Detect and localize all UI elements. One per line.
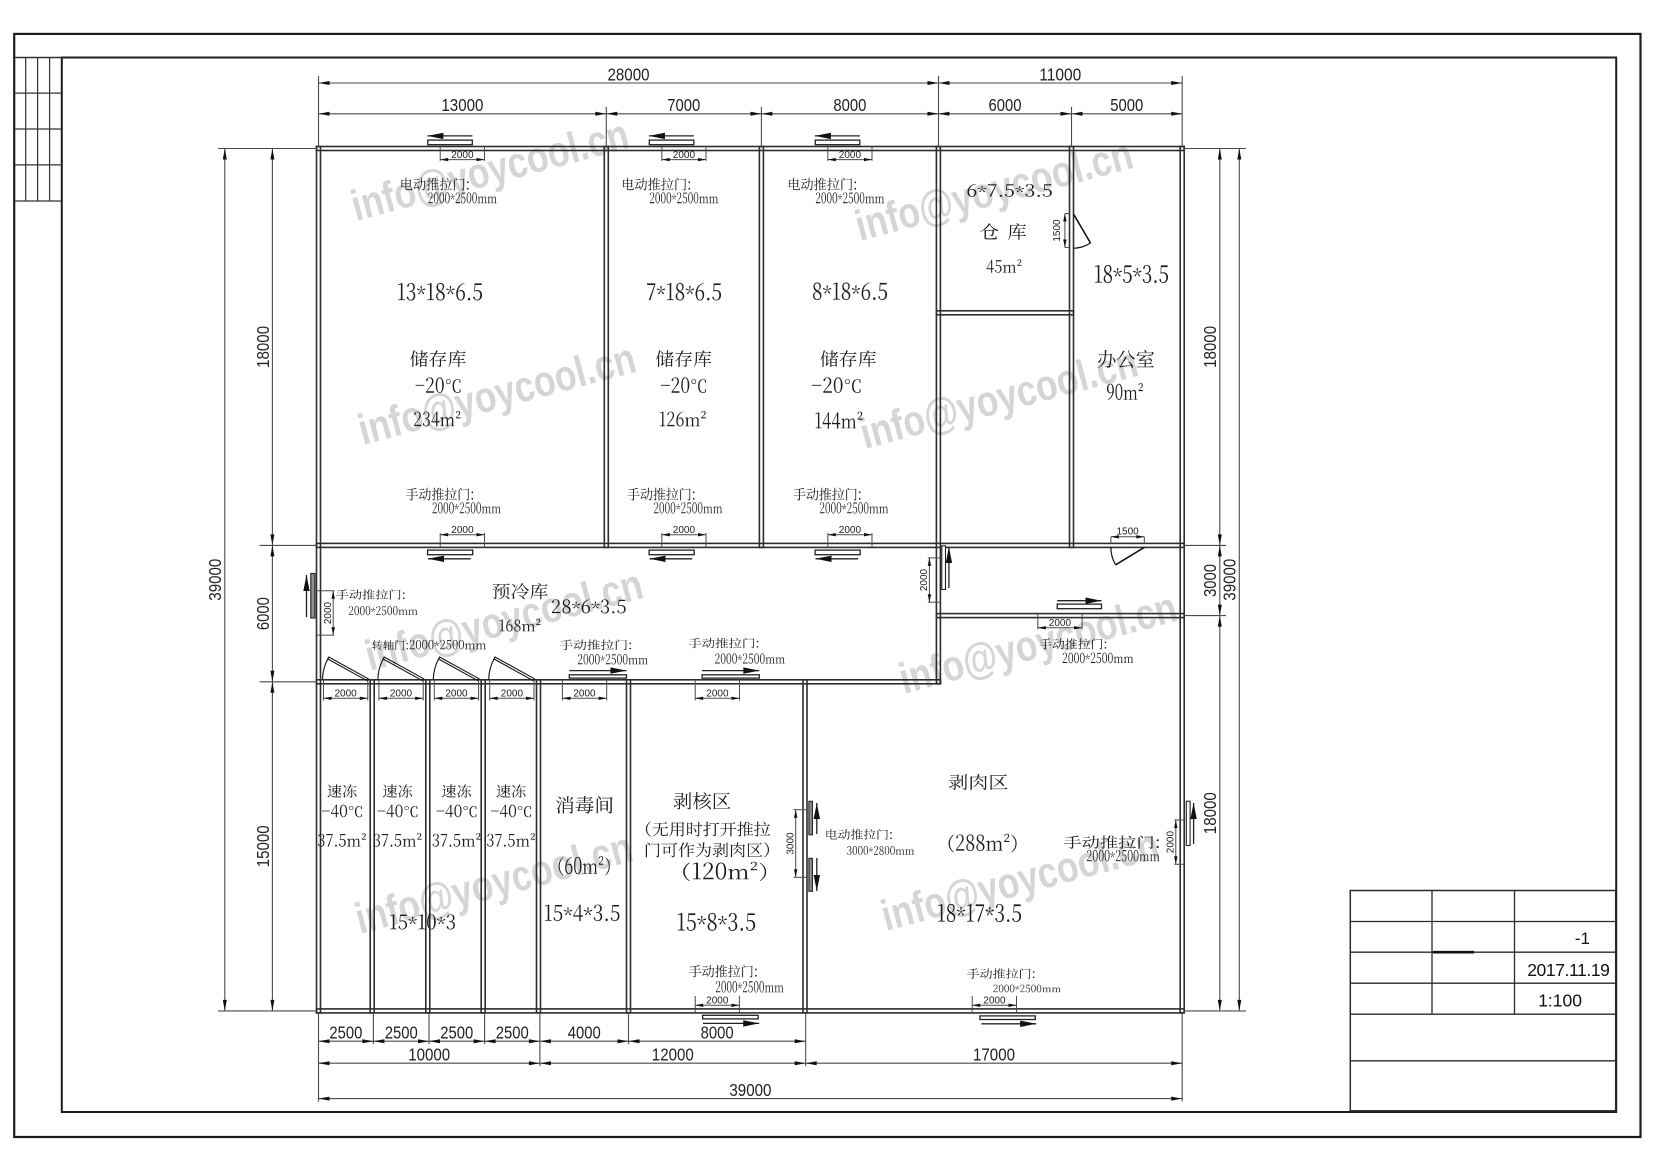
wall: warehouse south wall: [936, 311, 1073, 315]
svg-text:5000: 5000: [1110, 95, 1143, 115]
svg-text:6000: 6000: [989, 95, 1022, 115]
dimension: left 18000/6000/15000: [271, 149, 273, 1011]
door: manual sliding door, precool west wall: [306, 575, 308, 617]
dimension extension lines: right: [1184, 148, 1246, 150]
label: manual door, pit area: [689, 638, 759, 648]
svg-text:39000: 39000: [205, 558, 225, 600]
svg-text:3000: 3000: [786, 832, 797, 855]
door: pivot door, freezer 3: [439, 657, 480, 681]
svg-text:2500: 2500: [496, 1023, 529, 1043]
door: manual sliding door, precool east wall: [942, 546, 946, 590]
wall: freezer divider 2: [426, 680, 430, 1013]
dimension: bottom row 2500x4 / 4000 / 8000: [319, 1040, 806, 1042]
svg-text:2000: 2000: [706, 996, 729, 1007]
svg-text:39000: 39000: [1220, 558, 1240, 600]
door: electric sliding door, storage B north wall: [649, 135, 694, 137]
title block: heavy dash: [1433, 951, 1474, 954]
door: manual sliding door, meat area east wall: [1186, 801, 1190, 845]
label: manual door, storage B: [627, 488, 694, 501]
title block table: [1350, 891, 1615, 1111]
dimension: left 39000: [224, 149, 226, 1011]
svg-text:10000: 10000: [408, 1045, 450, 1065]
svg-text:2000: 2000: [839, 525, 862, 536]
door: manual sliding door, storage C south wall: [827, 533, 829, 547]
door: electric sliding door, storage A north wall: [427, 135, 472, 137]
svg-text:2000: 2000: [501, 689, 524, 700]
svg-text:2000: 2000: [451, 150, 474, 161]
wall: storage B/C divider: [759, 147, 763, 548]
door: warehouse swing door on east wall: [1065, 213, 1070, 215]
dimension: right 18000/3000/18000: [1219, 149, 1221, 1011]
door: pivot door, freezer 1: [328, 657, 369, 681]
dimension: right 39000: [1238, 149, 1240, 1011]
wall: pit-area / meat-area divider: [803, 680, 807, 1013]
label: manual door, precool west: [336, 589, 405, 599]
wall: building bottom: [317, 1009, 1185, 1013]
room: precool 28x6x3.5 168m2: [492, 583, 547, 599]
label: manual door, disinfection: [560, 640, 631, 651]
svg-text:2500: 2500: [385, 1023, 418, 1043]
dimension extension lines: top: [318, 76, 320, 147]
svg-text:2000: 2000: [706, 689, 729, 700]
door: manual sliding door, pit removal area north wall: [702, 670, 759, 672]
svg-text:-1: -1: [1575, 929, 1590, 948]
dimension extension lines: bottom: [318, 1013, 320, 1102]
svg-text:4000: 4000: [568, 1023, 601, 1043]
door: office swing door on south wall: [1110, 537, 1112, 544]
svg-text:13000: 13000: [441, 95, 483, 115]
svg-text:2000: 2000: [334, 689, 357, 700]
svg-text:8000: 8000: [701, 1023, 734, 1043]
svg-text:39000: 39000: [729, 1080, 771, 1100]
dimension: top row 13000/7000/8000/6000/5000: [319, 113, 1183, 115]
label: manual door, pit south: [689, 965, 757, 977]
svg-text:1500: 1500: [1052, 219, 1063, 242]
wall: storage C / warehouse divider, precool east wall: [936, 147, 940, 684]
wall: freezer divider 4: [537, 680, 541, 1013]
wall: building left: [317, 147, 321, 1013]
room: pit removal area 15x8x3.5 120m2: [674, 792, 731, 809]
room: meat peeling area 18x17x3.5 288m2: [949, 774, 1008, 790]
svg-text:2000: 2000: [919, 568, 930, 591]
svg-text:2000: 2000: [1049, 618, 1072, 629]
svg-text:2000: 2000: [323, 601, 334, 624]
svg-text:2000: 2000: [673, 525, 696, 536]
svg-text:2000: 2000: [390, 689, 413, 700]
door: manual sliding door, storage B south wall: [661, 533, 663, 547]
dimension: bottom row 10000 / 12000 / 17000: [319, 1062, 1183, 1064]
wall: freezer divider 3: [481, 680, 485, 1013]
svg-text:2000: 2000: [1166, 831, 1177, 854]
label: electric door, storage B: [623, 178, 690, 191]
room: storage B 7x18x6.5: [647, 283, 721, 301]
wall: building top (rooms A/B/C, warehouse, office): [317, 147, 1185, 151]
door: manual sliding door, corridor to meat area: [1057, 600, 1101, 602]
wall: disinfection / pit-area divider: [627, 680, 631, 1013]
svg-text:28000: 28000: [608, 64, 650, 84]
label: manual door, storage A: [406, 488, 473, 501]
svg-text:18000: 18000: [253, 326, 273, 368]
door: electric double sliding door 3000x2800: [809, 801, 813, 835]
wall: building right (office / meat area east wall): [1180, 147, 1184, 1013]
label: electric door, storage A: [401, 178, 468, 191]
room: office 18x5x3.5 90m2: [1095, 265, 1168, 283]
wall: storage south / precool north wall and office south wall: [317, 543, 1185, 547]
room: storage A 13x18x6.5: [398, 283, 482, 301]
svg-text:17000: 17000: [973, 1045, 1015, 1065]
svg-text:2000: 2000: [839, 150, 862, 161]
svg-text:11000: 11000: [1039, 64, 1081, 84]
svg-text:2500: 2500: [440, 1023, 473, 1043]
wall: precool south / freezer north wall: [317, 680, 941, 684]
wall: warehouse / office divider: [1070, 147, 1074, 548]
dimension: top row 28000 / 11000: [319, 82, 1183, 84]
svg-text:2000: 2000: [983, 996, 1006, 1007]
label: electric door, storage C: [789, 178, 856, 191]
svg-text:18000: 18000: [1200, 792, 1220, 834]
svg-text:6000: 6000: [253, 597, 273, 630]
room: disinfection 15x4x3.5 60m2: [556, 796, 613, 814]
svg-text:3000: 3000: [1200, 564, 1220, 597]
svg-text:12000: 12000: [652, 1045, 694, 1065]
svg-text:15000: 15000: [253, 825, 273, 867]
label: manual door, meat south: [967, 968, 1034, 979]
label: electric door 3000: [826, 829, 891, 840]
svg-text:2500: 2500: [329, 1023, 362, 1043]
top-left revision grid: [14, 57, 62, 59]
svg-text:2000: 2000: [573, 689, 596, 700]
door: manual sliding door, storage A south wall: [439, 533, 441, 547]
svg-text:8000: 8000: [833, 95, 866, 115]
label: manual door, storage C: [793, 488, 860, 501]
label: pivot door spec: [372, 640, 486, 650]
dimension: bottom row 39000: [319, 1098, 1183, 1100]
door: manual sliding door, disinfection room north wall: [569, 670, 626, 672]
wall: corridor south / meat area north wall: [936, 614, 1184, 618]
label: manual door, corridor: [1039, 638, 1106, 649]
svg-text:1500: 1500: [1116, 527, 1139, 538]
rooms: quick-freeze cells: [327, 784, 356, 797]
door: manual sliding door, meat area south wall: [971, 996, 973, 1013]
label: manual door, meat east: [1064, 835, 1159, 848]
wall: storage A/B divider: [604, 147, 608, 548]
wall: freezer divider 1: [370, 680, 374, 1013]
door: electric sliding door, storage C north wall: [815, 135, 860, 137]
door: manual sliding door, pit area south wall: [694, 996, 696, 1013]
svg-text:2000: 2000: [445, 689, 468, 700]
svg-text:1:100: 1:100: [1538, 991, 1582, 1011]
svg-text:2000: 2000: [451, 525, 474, 536]
svg-text:2000: 2000: [673, 150, 696, 161]
dimension extension lines: left: [218, 148, 317, 150]
room: warehouse 6x7.5x3.5 45m2: [967, 184, 1051, 197]
svg-text:7000: 7000: [667, 95, 700, 115]
svg-text:18000: 18000: [1200, 326, 1220, 368]
room: storage C 8x18x6.5: [813, 283, 887, 301]
svg-text:2017.11.19: 2017.11.19: [1527, 960, 1609, 980]
door: pivot door, freezer 4: [494, 657, 535, 681]
door: pivot door, freezer 2: [383, 657, 424, 681]
